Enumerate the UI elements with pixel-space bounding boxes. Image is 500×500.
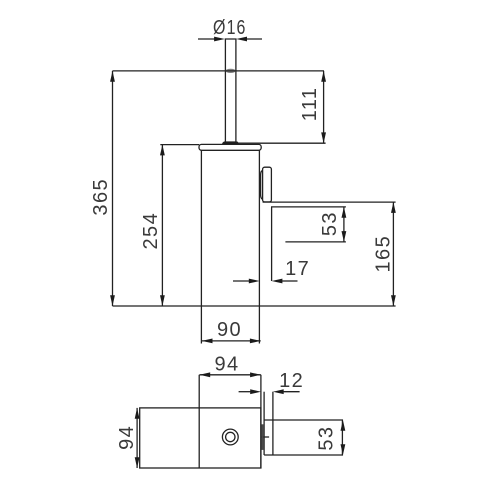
svg-text:53: 53 [319, 211, 341, 236]
dim 53 front line [342, 207, 347, 242]
extension line 254 top [160, 144, 199, 146]
canister body right edge with 90 extension [258, 150, 260, 343]
wall plate top view [264, 420, 342, 455]
canister lid [199, 144, 261, 150]
screw hole inner circle [226, 432, 235, 441]
extension line 53 front top [271, 206, 346, 208]
top view divider and 94 left extension [198, 375, 200, 468]
clip spring front [261, 170, 263, 199]
dim Ø16 arrow left [198, 37, 225, 42]
wall bracket front [263, 167, 272, 202]
dim 12 left arrow [239, 389, 261, 394]
screw hole outer circle [222, 429, 238, 445]
clip hatch upper [261, 424, 264, 436]
dim 12 right arrow [273, 389, 300, 394]
dim 53 bottom arrows [341, 420, 346, 455]
svg-text:254: 254 [140, 212, 162, 250]
dim 165 line [391, 202, 396, 306]
floor line [113, 305, 396, 307]
dim 17 right extension line [271, 208, 273, 282]
dim 365 line [110, 71, 115, 306]
svg-text:94: 94 [116, 425, 138, 450]
bracket right extension line C [272, 392, 274, 455]
dim 254 line [160, 145, 165, 306]
bracket left extension line B [263, 392, 265, 455]
clip hatch lower [261, 438, 264, 450]
dim Ø16 arrow right [236, 37, 262, 42]
extension line 53 front bottom [285, 241, 346, 243]
extension line top for 365 and 111 [113, 70, 325, 72]
svg-text:165: 165 [373, 235, 395, 273]
dim 17 right arrow [272, 279, 298, 284]
rod base flare [223, 142, 239, 144]
svg-text:Ø16: Ø16 [213, 17, 247, 39]
svg-text:111: 111 [299, 87, 321, 122]
svg-text:365: 365 [90, 178, 112, 216]
svg-text:17: 17 [285, 258, 310, 280]
dim 111 line [321, 71, 326, 143]
extension line 111 bottom [239, 142, 326, 144]
canister body left edge with 90 extension [200, 150, 202, 343]
svg-text:12: 12 [279, 370, 304, 392]
brush handle rod [225, 39, 236, 142]
rod joint ellipse [225, 69, 235, 73]
top view right edge and extension line A [260, 375, 262, 468]
dim 17 left arrow [233, 279, 260, 284]
svg-text:53: 53 [316, 426, 338, 451]
dim 94 left line [135, 408, 140, 468]
dim 90 line [202, 339, 261, 344]
top view outline [140, 408, 261, 468]
svg-text:94: 94 [214, 354, 239, 376]
dim 94 top line [199, 372, 261, 377]
bracket arm top line, 165 extension [263, 201, 396, 203]
clip tick line [261, 436, 269, 438]
svg-text:90: 90 [217, 319, 242, 341]
